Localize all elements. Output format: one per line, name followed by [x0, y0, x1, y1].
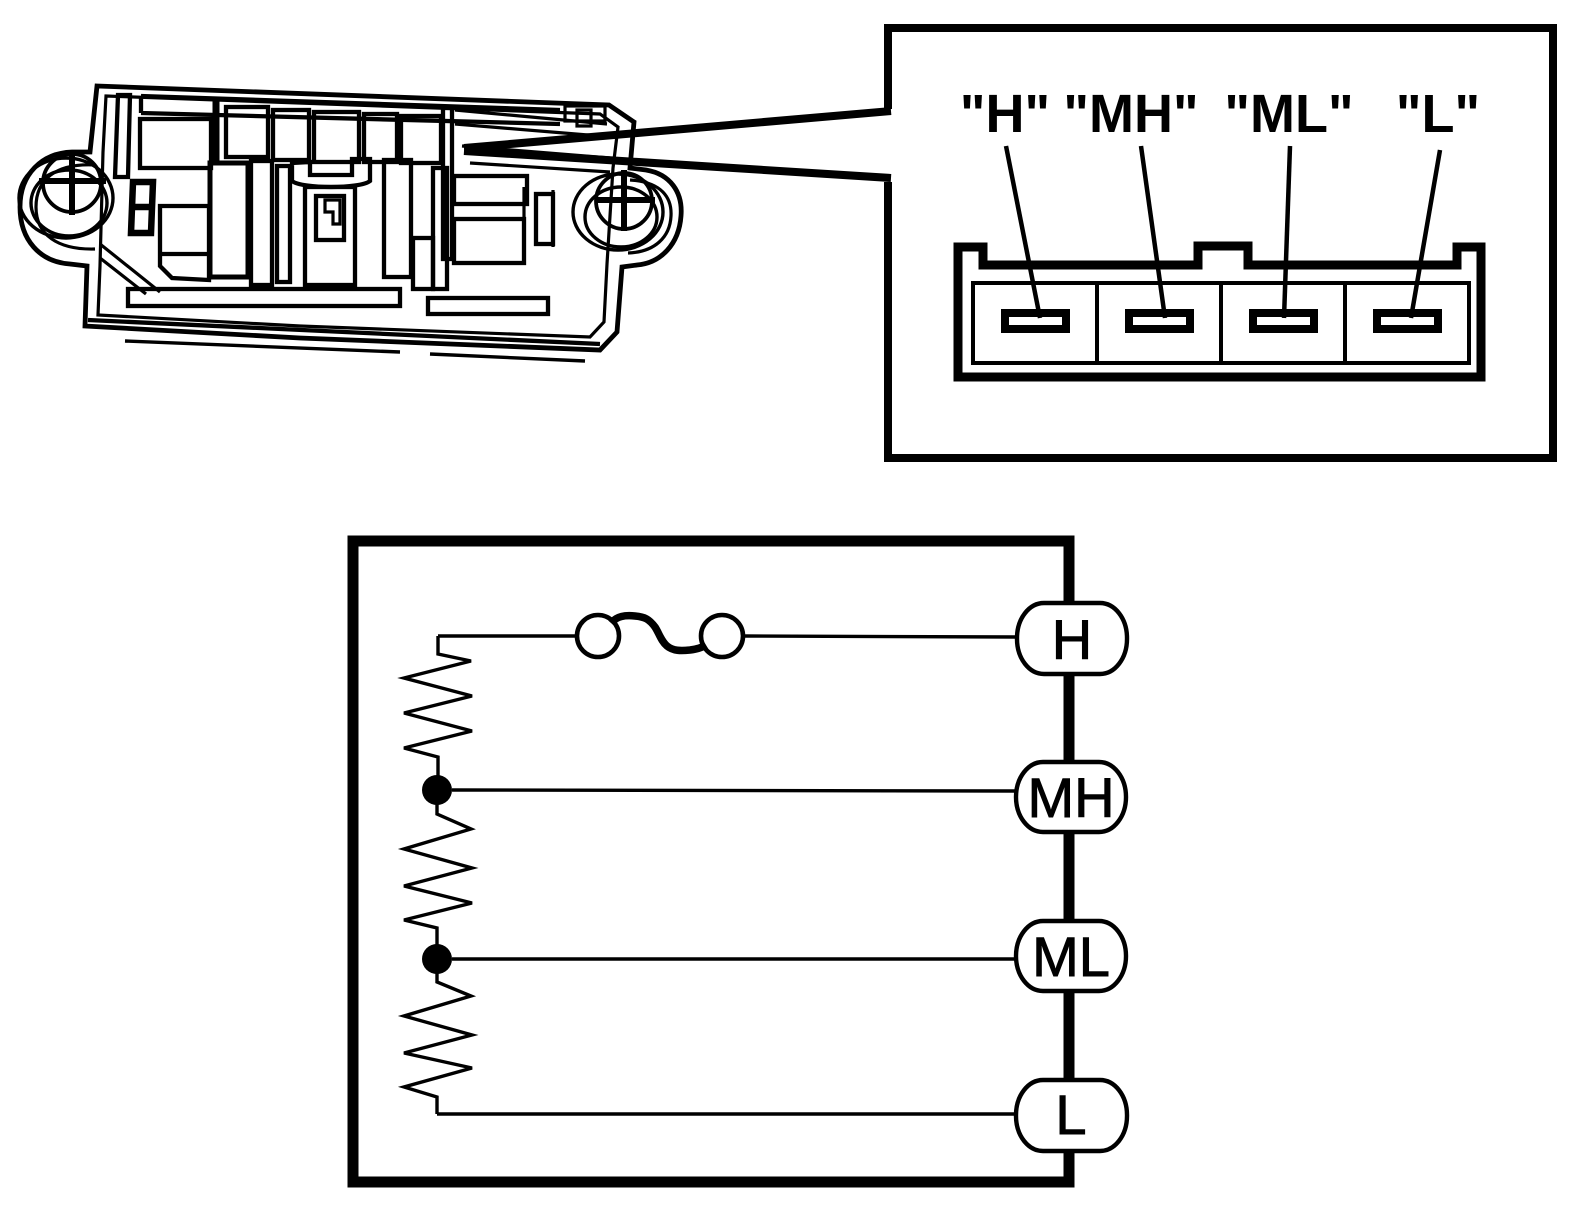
center right column: [384, 160, 411, 277]
cell rect 5: [364, 114, 397, 162]
terminal MH: [1016, 762, 1126, 832]
top right small rect: [565, 106, 605, 121]
svg-text:L: L: [1055, 1083, 1086, 1146]
connector housing outline: [958, 246, 1481, 377]
right mounting ear inner arc: [628, 180, 671, 253]
left screw cross: [39, 153, 106, 215]
component inner outline: [98, 96, 618, 337]
terminal slot MH: [1129, 313, 1190, 329]
left screw boss: [19, 158, 113, 238]
wire bottom to terminal L: [437, 1112, 1018, 1115]
cavity divider 3: [1343, 283, 1347, 363]
center housing window: [316, 196, 344, 240]
thermal fuse element: [611, 616, 706, 651]
schematic enclosure box: [353, 541, 1069, 1182]
left mounting ear inner arc: [36, 165, 95, 249]
left column second strip: [277, 166, 290, 282]
fuse right circle: [701, 615, 743, 657]
left column: [251, 161, 272, 285]
svg-text:"ML": "ML": [1224, 84, 1353, 144]
right bracket lines: [524, 187, 553, 249]
wire fuse to terminal H: [743, 636, 1018, 637]
thick divider bar: [213, 100, 220, 163]
center housing key: [325, 200, 340, 224]
terminal L: [1016, 1080, 1127, 1151]
connector cavity frame: [973, 283, 1469, 363]
vertical slot top-left: [115, 95, 130, 177]
small lower rect: [413, 238, 433, 289]
callout wedge line lower: [464, 151, 891, 178]
tall thin column: [433, 168, 447, 289]
top right small rect inner: [577, 110, 591, 126]
svg-text:ML: ML: [1032, 925, 1110, 988]
svg-text:"L": "L": [1396, 84, 1480, 144]
cavity divider 1: [1095, 283, 1099, 363]
center crown bracket: [292, 159, 370, 187]
right small rect: [536, 194, 553, 244]
fuse left circle: [577, 615, 619, 657]
bottom edge line 1: [88, 320, 600, 344]
svg-text:H: H: [1052, 608, 1092, 671]
small tab left: [131, 182, 153, 233]
wire top to fuse: [438, 634, 576, 637]
right block 2: [454, 219, 524, 263]
right block 1: [454, 176, 527, 204]
right screw cross: [595, 170, 655, 231]
terminal slot H: [1005, 313, 1066, 329]
terminal slot L: [1377, 313, 1438, 329]
right screw boss inner: [585, 187, 657, 247]
resistor R3: [404, 973, 472, 1114]
bottom strip left: [128, 289, 400, 306]
component body outline: [20, 86, 681, 350]
wire junction to terminal ML: [452, 957, 1018, 960]
junction node MH: [422, 775, 452, 805]
connector detail box: [880, 28, 1553, 458]
terminal slot ML: [1253, 313, 1314, 329]
lower-left rect: [160, 206, 209, 280]
svg-text:"H": "H": [960, 84, 1050, 144]
leader line to pin H: [1006, 146, 1040, 318]
svg-text:"MH": "MH": [1063, 84, 1198, 144]
center housing: [305, 187, 355, 285]
svg-text:MH: MH: [1027, 766, 1114, 829]
left screw head: [43, 154, 101, 212]
cell rect 2: [226, 107, 268, 157]
cell rect 3: [273, 110, 309, 160]
right screw boss: [573, 174, 663, 250]
leader line to pin ML: [1284, 146, 1290, 318]
cavity divider 2: [1219, 283, 1223, 363]
callout wedge line upper: [464, 111, 891, 148]
cell rect 6: [401, 116, 441, 163]
cell rect 4: [314, 112, 359, 162]
vertical strip right of cells: [443, 108, 452, 259]
terminal ML: [1016, 921, 1126, 991]
top thin strip: [141, 96, 560, 124]
leader line to pin MH: [1141, 146, 1165, 318]
right upper lines: [455, 110, 610, 172]
lower-left diagonal: [100, 244, 160, 294]
junction node ML: [422, 944, 452, 974]
cell rect 1: [140, 119, 211, 168]
resistor R2: [404, 804, 472, 945]
leader line to pin L: [1411, 150, 1440, 318]
bottom strip right: [428, 298, 548, 314]
resistor R1: [404, 636, 472, 776]
right screw head: [596, 173, 652, 229]
bottom edge line 2: [125, 341, 585, 361]
terminal H: [1017, 603, 1127, 674]
left screw boss inner: [31, 170, 107, 236]
mid-left tall column: [210, 163, 248, 277]
wire junction to terminal MH: [452, 790, 1018, 791]
